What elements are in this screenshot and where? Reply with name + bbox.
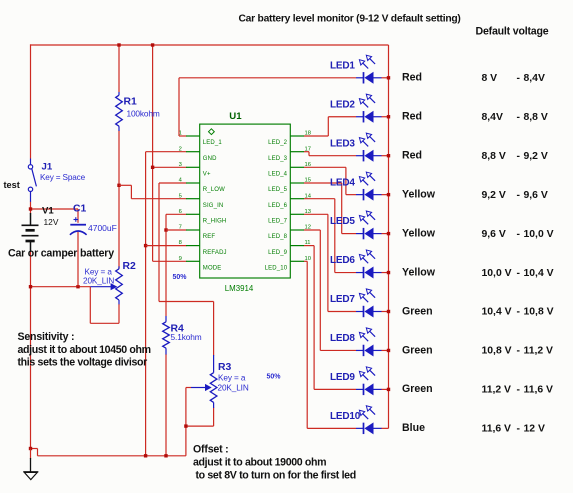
svg-text:9,2 V: 9,2 V [482, 190, 506, 201]
svg-text:100kohm: 100kohm [127, 109, 160, 119]
svg-text:REF: REF [203, 234, 216, 240]
svg-text:test: test [4, 180, 20, 190]
svg-text:Blue: Blue [402, 422, 425, 434]
wire: REFADJ pin8 horizontal [146, 245, 187, 247]
wire: LED6 anode to bus [381, 272, 388, 274]
svg-text:10,0 V: 10,0 V [482, 268, 512, 279]
wire: pin 16 to LED4 [304, 166, 346, 168]
wire: battery bottom down left rail to ground jog [30, 252, 32, 450]
node: rail to R1 junction [117, 43, 120, 46]
node: R4 to ground bus junction [164, 454, 167, 457]
node: LED4 anode junction [387, 193, 390, 196]
wire: V+ pin3 horizontal [153, 166, 187, 168]
wire: LED anode bus vertical [388, 45, 390, 428]
wire: left rail from top rail to switch J1 [30, 44, 32, 158]
LED8 (Green) [356, 328, 382, 357]
svg-text:Key = Space: Key = Space [40, 173, 86, 182]
svg-text:-: - [517, 229, 521, 240]
svg-text:9: 9 [179, 256, 182, 262]
svg-text:this sets the voltage divisor: this sets the voltage divisor [18, 357, 148, 369]
svg-text:Green: Green [402, 344, 433, 356]
svg-text:1: 1 [179, 131, 182, 137]
wire: pin 11 to LED9 [304, 245, 314, 247]
svg-text:8: 8 [179, 240, 182, 246]
svg-text:10,4 V: 10,4 V [524, 268, 554, 279]
wire: GND vertical to bottom bus [145, 152, 147, 456]
svg-text:8,4V: 8,4V [482, 112, 503, 123]
svg-text:J1: J1 [42, 161, 53, 172]
node: REF joins R_HIGH wire [164, 228, 167, 231]
svg-text:11: 11 [305, 240, 311, 246]
node: LED1 anode junction [387, 76, 390, 79]
LED10 (Blue) [356, 406, 382, 435]
pin 10 LED_10 [265, 256, 311, 272]
wire: pin 14 to LED6 [304, 198, 335, 200]
wire: LED3 anode to bus [381, 155, 388, 157]
svg-text:16: 16 [305, 162, 311, 168]
svg-text:-: - [517, 268, 521, 279]
potentiometer R3 [191, 355, 217, 408]
svg-text:18: 18 [305, 131, 311, 137]
svg-text:-: - [517, 424, 521, 435]
wire: bottom ground bus [38, 455, 186, 457]
svg-text:LED_4: LED_4 [268, 172, 288, 178]
svg-text:R1: R1 [124, 96, 138, 107]
wire: R_HIGH pin6 horizontal [166, 213, 187, 215]
svg-text:10: 10 [305, 256, 311, 262]
wire: R_HIGH/REF vertical to R4 [165, 214, 167, 316]
svg-text:to set 8V to turn on for the f: to set 8V to turn on for the first led [196, 469, 356, 481]
node: LED3 anode junction [387, 154, 390, 157]
node: ground junction on left rail [29, 447, 32, 450]
wire: LED9 anode to bus [381, 388, 388, 390]
node: LED5 anode junction [387, 232, 390, 235]
node: battery/C1 top junction [29, 207, 32, 210]
svg-text:LED4: LED4 [330, 177, 355, 188]
svg-text:50%: 50% [173, 274, 188, 281]
svg-text:8 V: 8 V [482, 73, 498, 84]
wire: +12V top rail [31, 44, 389, 46]
svg-text:U1: U1 [229, 111, 242, 122]
wire: J1 bottom to battery top node [30, 202, 32, 214]
svg-text:-: - [517, 73, 521, 84]
svg-text:V1: V1 [42, 206, 54, 217]
LED5 (Yellow) [356, 211, 382, 240]
wire: R_LOW pin4 horizontal [159, 182, 187, 184]
svg-text:-: - [517, 151, 521, 162]
node: LED6 anode junction [387, 271, 390, 274]
node: LED7 anode junction [387, 310, 390, 313]
wire: pin 18 to LED2 [304, 135, 329, 137]
svg-text:R2: R2 [123, 261, 137, 272]
node: LED8 anode junction [387, 349, 390, 352]
svg-text:-: - [517, 307, 521, 318]
node: top rail to V+ junction [151, 43, 154, 46]
LED1 (Red) [356, 55, 382, 84]
node: R3 wiper/bottom junction [184, 424, 187, 427]
wire: REF pin7 horizontal [166, 229, 187, 231]
LED9 (Green) [356, 367, 382, 396]
wire: R4 bottom to ground bus [165, 354, 167, 456]
svg-text:9,2 V: 9,2 V [524, 151, 548, 162]
svg-text:20K_LIN: 20K_LIN [218, 383, 249, 392]
pin 12 LED_8 [268, 225, 311, 241]
wire: R1 bottom to R2 top (divider node) [118, 131, 120, 269]
svg-text:5.1kohm: 5.1kohm [171, 332, 202, 342]
svg-text:LED_8: LED_8 [268, 234, 288, 240]
wire: pin1 LED_1 stub to corner [179, 135, 187, 137]
svg-text:adjust it to about 19000 ohm: adjust it to about 19000 ohm [193, 457, 326, 469]
svg-text:Default voltage: Default voltage [476, 25, 549, 37]
pin 8 REFADJ [179, 240, 227, 256]
wire: pin1 corner up to LED1 row [178, 78, 180, 136]
node: LED9 anode junction [387, 388, 390, 391]
pin 14 LED_6 [268, 193, 312, 209]
wire: R_LOW vertical down [158, 183, 160, 302]
svg-text:LED_5: LED_5 [268, 187, 288, 193]
svg-text:10,0 V: 10,0 V [524, 229, 554, 240]
svg-text:C1: C1 [73, 203, 87, 214]
label voltage range 9 [482, 385, 554, 396]
LED6 (Yellow) [356, 250, 382, 279]
svg-text:LED9: LED9 [330, 372, 355, 383]
svg-text:15: 15 [305, 178, 311, 184]
svg-text:11,6 V: 11,6 V [482, 424, 512, 435]
wire: R2 wiper column vertical [89, 287, 91, 324]
svg-text:6: 6 [179, 209, 182, 215]
svg-text:9,6 V: 9,6 V [524, 190, 548, 201]
wire: R2 bottom lead down [118, 304, 120, 323]
svg-text:R3: R3 [218, 362, 232, 373]
wire: pin 17 to LED3 [304, 151, 309, 153]
wire: pin 10 to LED10 [304, 260, 307, 262]
pin 3 V+ [179, 162, 211, 178]
pin 7 REF [179, 225, 216, 241]
pin 1 polarity diamond [209, 129, 215, 135]
svg-text:8,8 V: 8,8 V [524, 112, 548, 123]
pin 17 LED_3 [268, 146, 311, 162]
svg-text:-: - [517, 385, 521, 396]
svg-text:3: 3 [179, 162, 182, 168]
svg-text:REFADJ: REFADJ [203, 250, 227, 256]
wire: battery top node to C1 top [31, 208, 79, 210]
svg-text:Red: Red [402, 150, 422, 162]
svg-text:2: 2 [179, 146, 182, 152]
label voltage range 3 [482, 151, 548, 162]
label voltage range 10 [482, 424, 545, 435]
op-amp/IC U1 LM3914 body [200, 124, 291, 278]
svg-text:LED10: LED10 [330, 411, 361, 422]
node: left rail wiper junction [29, 285, 32, 288]
pin 13 LED_7 [268, 209, 311, 225]
svg-text:LED5: LED5 [330, 216, 355, 227]
node: C1 bottom junction [76, 285, 79, 288]
svg-text:9,6 V: 9,6 V [482, 229, 506, 240]
svg-text:Red: Red [402, 111, 422, 123]
svg-text:10,8 V: 10,8 V [524, 307, 554, 318]
svg-text:Car or camper battery: Car or camper battery [8, 247, 114, 259]
svg-text:Sensitivity :: Sensitivity : [18, 331, 75, 343]
svg-text:LED_9: LED_9 [268, 250, 288, 256]
label voltage range 5 [482, 229, 554, 240]
resistor R4 [163, 316, 170, 355]
switch J1 [28, 159, 36, 202]
svg-text:GND: GND [203, 156, 217, 162]
svg-text:14: 14 [305, 193, 312, 199]
svg-text:LED3: LED3 [330, 138, 355, 149]
wire: R_LOW feed to R3 top [159, 301, 214, 303]
ground [23, 449, 38, 480]
pin 15 LED_5 [268, 178, 311, 194]
svg-text:7: 7 [179, 225, 182, 231]
wire: LED1 anode to bus [381, 77, 388, 79]
svg-text:5: 5 [179, 193, 182, 199]
wire: pin 12 to LED8 [304, 229, 321, 231]
svg-text:-: - [517, 112, 521, 123]
svg-text:LED_2: LED_2 [268, 140, 288, 146]
pin 4 R_LOW [179, 178, 226, 194]
svg-text:17: 17 [305, 146, 311, 152]
label voltage range 7 [482, 307, 554, 318]
resistor R1 [116, 92, 123, 131]
svg-text:LED2: LED2 [330, 99, 355, 110]
svg-text:12: 12 [305, 225, 311, 231]
svg-text:LED_3: LED_3 [268, 156, 288, 162]
svg-text:11,2 V: 11,2 V [524, 346, 554, 357]
wire: V+/MODE vertical from top rail [152, 45, 154, 261]
LED3 (Red) [356, 133, 382, 162]
potentiometer R2 [90, 266, 122, 304]
svg-text:Yellow: Yellow [402, 188, 436, 200]
wire: R3 bottom lead down [213, 408, 215, 427]
label voltage range 6 [482, 268, 554, 279]
svg-text:LED8: LED8 [330, 333, 355, 344]
svg-text:-: - [517, 346, 521, 357]
svg-text:50%: 50% [267, 374, 282, 381]
svg-text:Car battery level monitor (9-: Car battery level monitor (9-12 V defaul… [239, 13, 461, 24]
svg-text:8,8 V: 8,8 V [482, 151, 506, 162]
wire: R1 top feed from rail [118, 45, 120, 92]
pin 1 LED_1 [179, 131, 223, 147]
wire: GND pin2 horizontal [146, 151, 187, 153]
svg-text:LED_1: LED_1 [203, 140, 223, 146]
pin 6 R_HIGH [179, 209, 227, 225]
svg-text:LED6: LED6 [330, 255, 355, 266]
wire: LED10 anode to bus [381, 427, 388, 429]
wire: pin 15 to LED5 [304, 182, 342, 184]
svg-text:4700uF: 4700uF [88, 223, 117, 233]
wire: MODE pin9 horizontal [153, 260, 187, 262]
battery V1 [22, 213, 39, 252]
label voltage range 2 [482, 112, 548, 123]
LED4 (Yellow) [356, 172, 382, 201]
svg-text:13: 13 [305, 209, 311, 215]
wire: SIG_IN branch to pin 5 [131, 198, 186, 200]
wire: SIG_IN branch horizontal upper [119, 184, 131, 186]
wire: LED8 anode to bus [381, 349, 388, 351]
wire: ground jog horizontal [31, 448, 38, 450]
svg-text:8,4V: 8,4V [524, 73, 545, 84]
LED7 (Green) [356, 289, 382, 318]
node: V+ branch junction [151, 166, 154, 169]
wire: R3 wiper red segment [186, 387, 191, 389]
capacitor C1 [70, 209, 87, 287]
wire: pin 13 to LED7 [304, 213, 328, 215]
wire: LED4 anode to bus [381, 194, 388, 196]
svg-text:R_HIGH: R_HIGH [203, 219, 227, 225]
wire: LED1 cathode feed [179, 77, 356, 79]
pin 18 LED_2 [268, 131, 311, 147]
svg-text:Key = a: Key = a [85, 267, 113, 276]
label voltage range 8 [482, 346, 554, 357]
svg-text:Key = a: Key = a [218, 373, 246, 382]
wire: SIG_IN branch vertical [130, 185, 132, 198]
wire: R2 wiper rail to left rail [31, 286, 91, 288]
wire: LED2 anode to bus [381, 116, 388, 118]
svg-text:11,2 V: 11,2 V [482, 385, 512, 396]
wire: R3 wiper column down to bus [185, 388, 187, 456]
svg-text:LED1: LED1 [330, 60, 355, 71]
svg-text:20K_LIN: 20K_LIN [83, 276, 114, 285]
svg-text:Offset :: Offset : [193, 443, 228, 455]
svg-text:12 V: 12 V [524, 424, 545, 435]
svg-text:10,8 V: 10,8 V [482, 346, 512, 357]
svg-text:Yellow: Yellow [402, 227, 436, 239]
svg-text:12V: 12V [44, 217, 59, 227]
svg-text:LED7: LED7 [330, 294, 355, 305]
pin 5 SIG_IN [179, 193, 224, 209]
svg-text:LED_10: LED_10 [265, 266, 288, 272]
wire: LED5 anode to bus [381, 233, 388, 235]
pin 11 LED_9 [268, 240, 310, 256]
LED2 (Red) [356, 94, 382, 123]
wire: R3 top lead column [213, 302, 215, 356]
node: GND wire to bottom bus junction [144, 454, 147, 457]
svg-text:R_LOW: R_LOW [203, 187, 225, 193]
label voltage range 4 [482, 190, 548, 201]
svg-text:Green: Green [402, 383, 433, 395]
svg-text:Red: Red [402, 72, 422, 84]
svg-text:Yellow: Yellow [402, 266, 436, 278]
pin 9 MODE [179, 256, 222, 272]
svg-text:-: - [517, 190, 521, 201]
node: LED2 anode junction [387, 115, 390, 118]
svg-text:10,4 V: 10,4 V [482, 307, 512, 318]
pin 16 LED_4 [268, 162, 311, 178]
svg-text:MODE: MODE [203, 266, 222, 272]
svg-text:LED_6: LED_6 [268, 203, 288, 209]
label voltage range 1 [482, 73, 545, 84]
svg-text:Green: Green [402, 305, 433, 317]
pin 2 GND [179, 146, 218, 162]
wire: R2 bottom to wiper column [90, 322, 119, 324]
svg-text:11,6 V: 11,6 V [524, 385, 554, 396]
node: divider node to SIG_IN branch [117, 184, 120, 187]
wire: ground jog vertical [37, 449, 39, 456]
svg-text:SIG_IN: SIG_IN [203, 203, 224, 209]
wire: R3 bottom to wiper column [186, 425, 214, 427]
svg-text:V+: V+ [203, 172, 211, 178]
svg-text:adjust it to about 10450 ohm: adjust it to about 10450 ohm [18, 344, 151, 356]
node: REFADJ to GND junction [144, 244, 147, 247]
wire: LED7 anode to bus [381, 311, 388, 313]
svg-text:LM3914: LM3914 [225, 284, 254, 293]
svg-text:LED_7: LED_7 [268, 219, 288, 225]
